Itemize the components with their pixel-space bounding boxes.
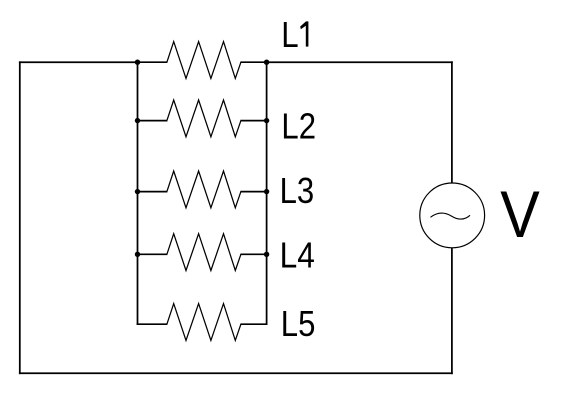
wire: left bus vertical <box>137 61 139 325</box>
wire: right border below source <box>451 248 453 374</box>
svg-text:L2: L2 <box>281 106 316 147</box>
svg-text:V: V <box>500 178 540 252</box>
node: junction dot, right bus row 1 <box>264 60 269 65</box>
node: junction dot, right bus row 4 <box>264 252 269 257</box>
node: junction dot, left bus row 3 <box>135 189 140 194</box>
node: junction dot, left bus row 4 <box>135 252 140 257</box>
wire: bottom segment <box>19 372 453 374</box>
svg-text:L3: L3 <box>280 170 315 211</box>
resistor L5 (lamp branch 5, bottom row) <box>137 304 268 341</box>
svg-text:L4: L4 <box>280 235 315 276</box>
resistor L4 (lamp branch 4) <box>138 234 267 271</box>
node: junction dot, left bus row 1 <box>135 60 140 65</box>
resistor L2 (lamp branch 2) <box>138 100 267 137</box>
svg-text:L: L <box>281 14 298 55</box>
label L1 <box>281 14 308 55</box>
node: junction dot, left bus row 2 <box>135 118 140 123</box>
wire: right border above source <box>451 61 453 183</box>
node: junction dot, right bus row 3 <box>264 189 269 194</box>
wire: right bus vertical <box>266 61 268 325</box>
node: junction dot, right bus row 2 <box>264 118 269 123</box>
AC voltage source V: sine (tilde) wave <box>431 213 471 219</box>
svg-text:L5: L5 <box>281 303 316 344</box>
resistor L3 (lamp branch 3) <box>138 171 267 208</box>
wire: left border (down) <box>19 61 21 374</box>
wire: top segment from left border to left bus <box>19 61 138 63</box>
resistor L1 (lamp branch 1, top row) <box>138 42 267 79</box>
AC voltage source V: circle body <box>420 183 485 248</box>
wire: top segment from right bus to right border <box>267 61 453 63</box>
